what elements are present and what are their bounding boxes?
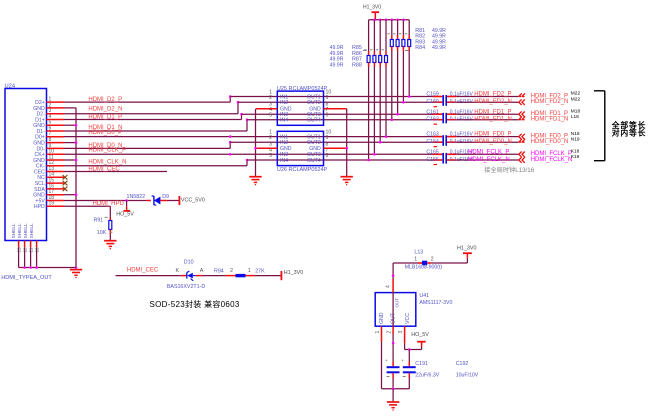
svg-text:OUT2: OUT2 bbox=[307, 140, 321, 146]
wire HDMI_D2_N from pin3 bbox=[64, 101, 239, 114]
svg-text:2: 2 bbox=[386, 331, 392, 334]
resistor R88 bbox=[364, 20, 370, 162]
wire HPD net bbox=[64, 201, 125, 217]
svg-text:H1_3V0: H1_3V0 bbox=[284, 270, 303, 276]
off-page ports bbox=[519, 93, 525, 163]
svg-text:HDMI_D2_P: HDMI_D2_P bbox=[88, 97, 122, 103]
U41 pin4 wire from L13 bbox=[386, 263, 395, 293]
port labels bbox=[531, 91, 581, 163]
svg-text:20: 20 bbox=[34, 247, 39, 253]
svg-text:2: 2 bbox=[269, 135, 272, 141]
svg-text:2: 2 bbox=[269, 95, 272, 101]
svg-text:C191: C191 bbox=[415, 361, 428, 367]
svg-text:HDMI_FD2_N: HDMI_FD2_N bbox=[474, 99, 512, 105]
svg-text:R91: R91 bbox=[94, 218, 104, 224]
svg-text:D9: D9 bbox=[162, 194, 169, 200]
svg-text:HDMI_D1_P: HDMI_D1_P bbox=[88, 115, 122, 121]
power H1_3V0 at L13 bbox=[457, 246, 476, 264]
svg-text:49.9R: 49.9R bbox=[432, 45, 446, 51]
svg-text:VCC_5V0: VCC_5V0 bbox=[181, 197, 205, 203]
resistor R87 bbox=[370, 20, 376, 156]
resistor group labels right bbox=[405, 28, 446, 51]
power H1_3V0 top bbox=[363, 5, 381, 20]
ground right of clamps bbox=[341, 177, 353, 186]
svg-text:+: + bbox=[401, 358, 404, 363]
resistor R81 bbox=[405, 20, 411, 98]
net labels left bbox=[88, 97, 126, 172]
resistor R85 bbox=[382, 20, 388, 138]
wire HDMI_D0_N from pin9 bbox=[64, 141, 232, 149]
resistor R83 bbox=[393, 20, 399, 116]
svg-text:HDMI_FCLK_N: HDMI_FCLK_N bbox=[468, 157, 510, 163]
diode D9 1N5822 on +5V bbox=[64, 194, 179, 205]
wire shell rail to ground bbox=[19, 266, 76, 269]
svg-text:M18: M18 bbox=[571, 108, 581, 114]
svg-text:C163: C163 bbox=[426, 132, 439, 138]
svg-text:OUT: OUT bbox=[395, 298, 400, 308]
svg-text:HDMI_D0_P: HDMI_D0_P bbox=[88, 130, 122, 136]
svg-text:N18: N18 bbox=[571, 131, 580, 137]
wire GND pins to ground bus bbox=[64, 108, 76, 268]
wire HDMI_CLK_P from pin10 bbox=[64, 153, 433, 156]
svg-text:9: 9 bbox=[326, 95, 329, 101]
svg-text:IN2: IN2 bbox=[280, 140, 288, 146]
label HDMI_TYPEA_OUT bbox=[1, 275, 52, 281]
svg-text:C166: C166 bbox=[426, 157, 439, 163]
svg-text:C161: C161 bbox=[426, 109, 439, 115]
capacitor C159 bbox=[426, 92, 473, 106]
right gnd bus of clamps bbox=[345, 109, 348, 177]
power H1_3V0 at R94 bbox=[281, 270, 303, 280]
svg-text:K19: K19 bbox=[571, 154, 580, 160]
svg-text:IN4: IN4 bbox=[280, 158, 288, 164]
svg-text:SOD-523封装 兼容0603: SOD-523封装 兼容0603 bbox=[150, 299, 240, 309]
svg-text:HO_5V: HO_5V bbox=[116, 212, 134, 218]
svg-text:N19: N19 bbox=[571, 136, 580, 142]
svg-text:6: 6 bbox=[326, 153, 329, 159]
svg-text:H1_3V0: H1_3V0 bbox=[457, 246, 476, 252]
capacitor C191 22uF/6.3V bbox=[401, 350, 440, 389]
protection ic U25 RCLAMP0524P bbox=[277, 86, 328, 126]
svg-text:D10: D10 bbox=[184, 260, 194, 266]
inductor L13 MLB1608 bbox=[393, 249, 467, 270]
pullup bus rail bbox=[369, 19, 410, 22]
svg-text:9: 9 bbox=[326, 135, 329, 141]
connector shell pins bbox=[16, 241, 39, 268]
bracket equal-length note bbox=[594, 91, 605, 161]
svg-text:HDMI_FCLK_P: HDMI_FCLK_P bbox=[468, 149, 509, 155]
svg-text:HDMI_TYPEA_OUT: HDMI_TYPEA_OUT bbox=[1, 275, 52, 281]
svg-text:2: 2 bbox=[230, 268, 233, 274]
svg-text:HDMI_FD0_N: HDMI_FD0_N bbox=[531, 139, 569, 145]
power HO_5V tap bbox=[116, 199, 134, 218]
svg-text:22: 22 bbox=[22, 247, 27, 253]
svg-text:U41: U41 bbox=[419, 293, 429, 299]
regulator U41 AMS1117-3V0 bbox=[375, 293, 452, 327]
svg-text:对内等长: 对内等长 bbox=[612, 128, 647, 138]
U26 pin names bbox=[280, 135, 321, 164]
svg-text:HDMI_FD2_N: HDMI_FD2_N bbox=[531, 99, 569, 105]
capacitor C164 bbox=[426, 139, 473, 147]
svg-text:L18: L18 bbox=[571, 114, 579, 120]
svg-text:VCC: VCC bbox=[405, 313, 411, 324]
diode D10 BAS16XV2T1-D bbox=[167, 260, 205, 290]
capacitor C163 bbox=[426, 132, 473, 146]
svg-text:27K: 27K bbox=[255, 269, 265, 275]
svg-text:5: 5 bbox=[269, 153, 272, 159]
svg-text:C165: C165 bbox=[426, 149, 439, 155]
svg-text:1N5822: 1N5822 bbox=[127, 194, 146, 200]
wire HDMI_D0_P from pin7 bbox=[64, 135, 433, 138]
svg-text:+: + bbox=[385, 358, 388, 363]
text SOD-523 package note bbox=[150, 299, 240, 309]
svg-text:R94: R94 bbox=[214, 269, 224, 275]
capacitor C160 bbox=[426, 99, 473, 107]
connector U24 body bbox=[5, 84, 47, 241]
wires caps to ports bbox=[456, 97, 518, 161]
svg-text:C160: C160 bbox=[426, 99, 439, 105]
svg-text:4: 4 bbox=[386, 285, 392, 288]
svg-text:U26 RCLAMP0524P: U26 RCLAMP0524P bbox=[277, 167, 328, 173]
protection ic U26 RCLAMP0524P bbox=[277, 131, 328, 173]
svg-text:R88: R88 bbox=[352, 62, 362, 68]
svg-text:HDMI_FD2_P: HDMI_FD2_P bbox=[474, 92, 511, 98]
net labels at capacitors bbox=[468, 92, 512, 163]
U25 gnd stubs bbox=[256, 108, 347, 110]
connector U24 pin numbers bbox=[49, 97, 55, 207]
svg-text:K18: K18 bbox=[571, 149, 580, 155]
svg-text:A: A bbox=[200, 268, 204, 274]
wire VCC pin to HO_5V bbox=[405, 343, 422, 351]
ground at connector bbox=[70, 270, 82, 279]
resistor R94 27K bbox=[202, 268, 281, 277]
svg-text:HDMI_FD1_N: HDMI_FD1_N bbox=[474, 117, 512, 123]
svg-text:21: 21 bbox=[28, 247, 33, 253]
capacitor C166 bbox=[426, 157, 473, 165]
svg-text:K: K bbox=[176, 268, 180, 274]
svg-text:OUT2: OUT2 bbox=[307, 100, 321, 106]
svg-text:U24: U24 bbox=[5, 84, 16, 90]
left gnd bus of clamps bbox=[254, 109, 257, 177]
svg-text:49.9R: 49.9R bbox=[330, 62, 344, 68]
capacitor C192 10uF/10V bbox=[385, 358, 479, 389]
U41 pin stubs bottom bbox=[375, 293, 405, 344]
text global clock note bbox=[484, 166, 534, 174]
resistor R91 10K bbox=[94, 217, 113, 240]
resistor R86 bbox=[376, 20, 382, 144]
capacitor C162 bbox=[426, 117, 473, 125]
svg-text:H1_3V0: H1_3V0 bbox=[363, 5, 381, 11]
wire HDMI_D1_N from pin6 bbox=[64, 118, 248, 131]
text all nets equal length bbox=[611, 120, 647, 138]
svg-text:HDMI_FD0_P: HDMI_FD0_P bbox=[474, 132, 511, 138]
svg-text:HDMI_FD0_N: HDMI_FD0_N bbox=[474, 139, 512, 145]
power HO_5V at U41 bbox=[411, 332, 429, 349]
svg-text:C192: C192 bbox=[456, 361, 469, 367]
capacitor C165 bbox=[426, 149, 473, 163]
svg-text:C159: C159 bbox=[426, 92, 439, 98]
svg-text:1: 1 bbox=[414, 257, 417, 263]
svg-text:SHELL: SHELL bbox=[29, 223, 35, 239]
svg-text:M22: M22 bbox=[571, 91, 581, 97]
bottom rail of regulator bbox=[382, 388, 410, 391]
svg-text:3: 3 bbox=[398, 331, 404, 334]
capacitor C161 bbox=[426, 109, 473, 123]
ground left of clamps bbox=[249, 177, 261, 186]
svg-text:SHELL: SHELL bbox=[17, 223, 23, 239]
svg-text:SHELL: SHELL bbox=[11, 223, 17, 239]
connector U24 pin names bbox=[11, 100, 45, 239]
power VCC_5V0 bbox=[179, 196, 204, 205]
wire GND pin down bbox=[381, 342, 383, 389]
U25 pin names bbox=[280, 94, 321, 123]
svg-text:R84: R84 bbox=[415, 45, 425, 51]
svg-text:HDMI_FCLK_N: HDMI_FCLK_N bbox=[531, 157, 573, 163]
svg-text:HDMI_D2_N: HDMI_D2_N bbox=[88, 106, 122, 112]
U25 pin numbers bbox=[269, 90, 331, 119]
svg-text:C164: C164 bbox=[426, 139, 439, 145]
svg-text:GND: GND bbox=[379, 312, 385, 324]
svg-text:AMS1117-3V0: AMS1117-3V0 bbox=[419, 300, 452, 306]
svg-text:M22: M22 bbox=[571, 96, 581, 102]
svg-text:L13: L13 bbox=[414, 249, 423, 255]
junction dots on ground bus bbox=[75, 124, 78, 269]
svg-text:BAS16XV2T1-D: BAS16XV2T1-D bbox=[167, 284, 205, 290]
svg-text:U25 RCLAMP0524P: U25 RCLAMP0524P bbox=[277, 86, 328, 92]
svg-text:5: 5 bbox=[269, 113, 272, 119]
svg-text:HDMI_FD1_N: HDMI_FD1_N bbox=[531, 117, 569, 123]
svg-text:HDMI_FD1_P: HDMI_FD1_P bbox=[474, 109, 511, 115]
connector U24 pin stubs bbox=[47, 102, 65, 206]
svg-text:HDMI_HPD: HDMI_HPD bbox=[93, 201, 125, 207]
svg-text:1: 1 bbox=[248, 268, 251, 274]
wire HDMI_D1_P from pin4 bbox=[64, 113, 243, 120]
ground under R91 bbox=[104, 241, 116, 250]
svg-text:C162: C162 bbox=[426, 117, 439, 123]
svg-text:HPD: HPD bbox=[34, 204, 45, 210]
main rows to capacitors bbox=[230, 97, 433, 161]
svg-text:MLB1608-900(t): MLB1608-900(t) bbox=[405, 264, 443, 270]
svg-text:IN4: IN4 bbox=[280, 118, 288, 124]
svg-text:1: 1 bbox=[375, 331, 381, 334]
resistor group labels left bbox=[330, 45, 367, 68]
svg-text:HDMI_CLK_N: HDMI_CLK_N bbox=[88, 159, 126, 165]
resistor R84 bbox=[387, 20, 393, 121]
svg-text:10K: 10K bbox=[97, 230, 107, 236]
svg-text:HO_5V: HO_5V bbox=[411, 332, 429, 338]
svg-text:HDMI_CEC: HDMI_CEC bbox=[88, 167, 120, 173]
svg-text:IN2: IN2 bbox=[280, 100, 288, 106]
wire HDMI_CEC bottom bbox=[116, 268, 181, 276]
wire HDMI_CEC from pin13 bbox=[64, 171, 167, 173]
svg-text:2: 2 bbox=[431, 257, 434, 263]
svg-text:OUT4: OUT4 bbox=[307, 118, 321, 124]
U26 gnd stubs bbox=[256, 147, 347, 149]
svg-text:接全局时钟L13/16: 接全局时钟L13/16 bbox=[484, 166, 534, 174]
svg-text:HDMI_CLK_P: HDMI_CLK_P bbox=[88, 148, 126, 154]
svg-text:6: 6 bbox=[326, 113, 329, 119]
U26 pin numbers bbox=[269, 130, 331, 159]
resistor R82 bbox=[399, 20, 405, 104]
svg-text:22uF/6.3V: 22uF/6.3V bbox=[415, 373, 439, 379]
no-connect X marks pins 14-16 bbox=[63, 175, 68, 191]
ground under regulator bbox=[387, 389, 399, 411]
svg-text:23: 23 bbox=[16, 247, 21, 253]
wire OUT pin down bbox=[392, 334, 395, 362]
svg-text:10uF/10V: 10uF/10V bbox=[456, 373, 479, 379]
wire HDMI_CLK_N from pin12 bbox=[64, 159, 248, 166]
wire HDMI_D2_P from pin1 bbox=[64, 95, 232, 102]
svg-text:SHELL: SHELL bbox=[23, 223, 29, 239]
svg-text:HDMI_CEC: HDMI_CEC bbox=[127, 268, 159, 274]
svg-text:OUT4: OUT4 bbox=[307, 158, 321, 164]
